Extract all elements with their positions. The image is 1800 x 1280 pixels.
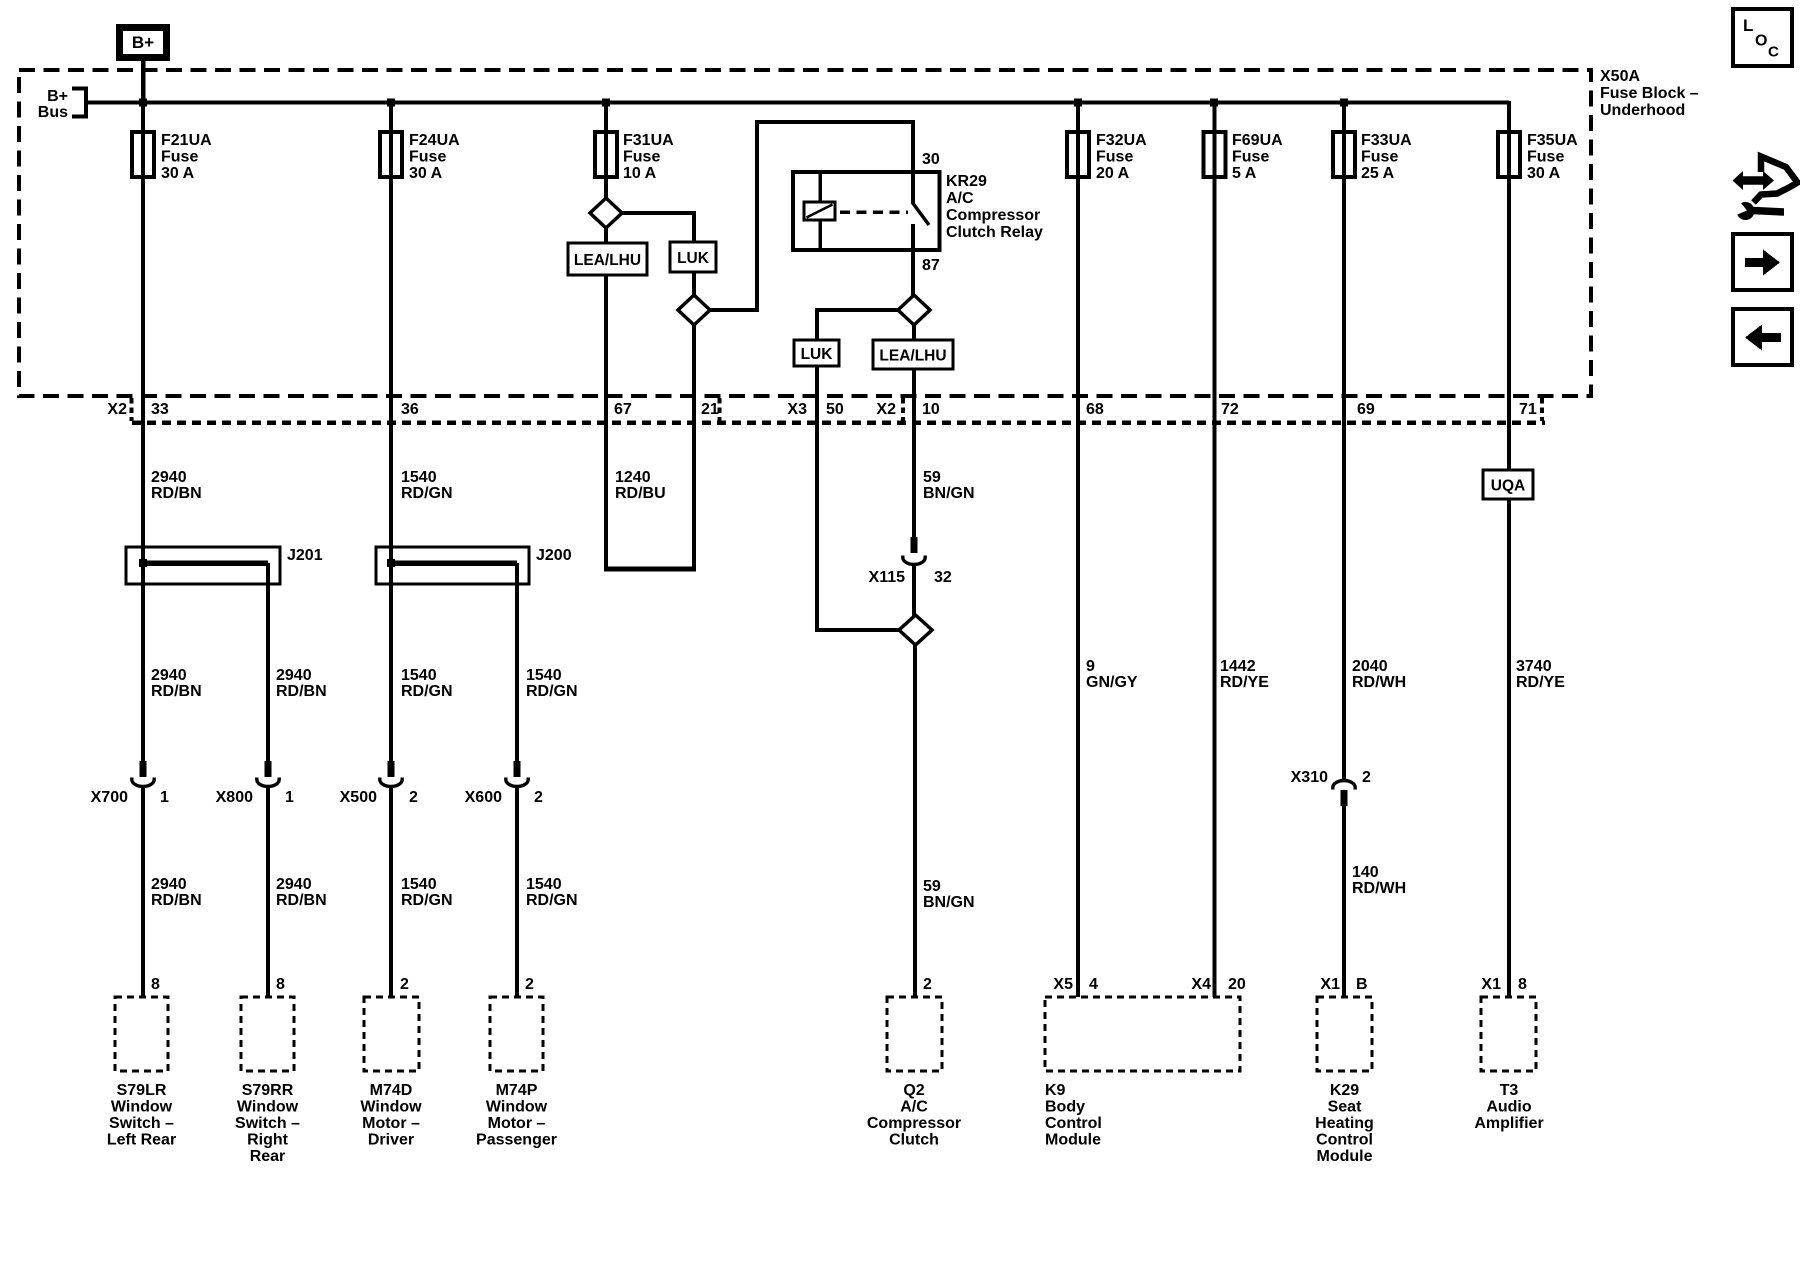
svg-text:Control: Control bbox=[1045, 1115, 1102, 1132]
splice diamond above pin 21 bbox=[678, 295, 710, 325]
svg-text:2: 2 bbox=[400, 976, 409, 993]
option box LEA/LHU (upper) bbox=[568, 243, 647, 275]
svg-text:30 A: 30 A bbox=[409, 165, 443, 182]
svg-text:GN/GY: GN/GY bbox=[1086, 674, 1138, 691]
svg-text:X115: X115 bbox=[869, 569, 906, 586]
wire diamond right arm up and over to relay pin 30 bbox=[708, 122, 913, 310]
svg-text:M74D: M74D bbox=[370, 1082, 413, 1099]
wire X800 to S79RR bbox=[266, 788, 270, 997]
svg-text:J201: J201 bbox=[287, 547, 323, 564]
svg-text:9: 9 bbox=[1086, 658, 1095, 675]
wire relay pin 87 to diamond bbox=[911, 250, 915, 297]
svg-text:Left Rear: Left Rear bbox=[107, 1132, 176, 1149]
svg-text:30 A: 30 A bbox=[161, 165, 195, 182]
wire below diamond to U-bottom bbox=[692, 323, 696, 569]
connector strip separator mark right of X2 bbox=[901, 398, 905, 421]
connector X310 socket arc bbox=[1333, 781, 1355, 790]
connector X600 socket arc bbox=[506, 778, 528, 787]
wire F24UA column bbox=[389, 104, 393, 762]
connector strip separator mark right of pin 71 bbox=[1540, 398, 1544, 421]
svg-text:140: 140 bbox=[1352, 864, 1379, 881]
svg-text:Module: Module bbox=[1045, 1132, 1101, 1149]
svg-text:33: 33 bbox=[151, 401, 169, 418]
option box LUK (upper) bbox=[670, 242, 716, 272]
junction block J200 box bbox=[376, 547, 529, 584]
component K29 dashed box bbox=[1317, 997, 1372, 1071]
svg-text:Fuse: Fuse bbox=[623, 149, 660, 166]
connector X115 male pin bbox=[910, 537, 917, 553]
svg-text:8: 8 bbox=[151, 976, 160, 993]
svg-text:Q2: Q2 bbox=[903, 1082, 924, 1099]
connector X310 male pin bbox=[1340, 790, 1347, 806]
svg-text:A/C: A/C bbox=[900, 1099, 928, 1116]
splice diamond below F31UA bbox=[590, 198, 622, 228]
svg-text:Compressor: Compressor bbox=[867, 1115, 961, 1132]
option box LUK (lower) bbox=[794, 340, 839, 366]
svg-text:67: 67 bbox=[614, 401, 632, 418]
component K9 dashed box bbox=[1045, 997, 1240, 1071]
wire U-bottom joining circuits 67 and 21 bbox=[604, 567, 696, 572]
junction block J201 box bbox=[126, 547, 280, 584]
svg-text:Right: Right bbox=[247, 1132, 289, 1149]
svg-text:B+: B+ bbox=[47, 88, 68, 105]
svg-text:F24UA: F24UA bbox=[409, 132, 460, 149]
svg-text:Rear: Rear bbox=[250, 1148, 286, 1165]
svg-text:2: 2 bbox=[534, 789, 543, 806]
option box UQA bbox=[1483, 470, 1533, 499]
svg-text:2: 2 bbox=[923, 976, 932, 993]
svg-text:1: 1 bbox=[285, 789, 294, 806]
svg-text:Module: Module bbox=[1317, 1148, 1373, 1165]
svg-text:Driver: Driver bbox=[368, 1132, 414, 1149]
svg-text:X700: X700 bbox=[91, 789, 128, 806]
svg-text:LEA/LHU: LEA/LHU bbox=[879, 348, 946, 365]
svg-text:Heating: Heating bbox=[1315, 1115, 1374, 1132]
svg-text:Clutch Relay: Clutch Relay bbox=[946, 224, 1043, 241]
svg-text:LUK: LUK bbox=[801, 346, 834, 363]
svg-text:F35UA: F35UA bbox=[1527, 132, 1578, 149]
svg-text:A/C: A/C bbox=[946, 190, 974, 207]
wire F35UA column bbox=[1507, 101, 1511, 997]
wire X700 to S79LR bbox=[141, 788, 145, 997]
svg-text:X310: X310 bbox=[1291, 769, 1328, 786]
svg-text:RD/BN: RD/BN bbox=[151, 683, 202, 700]
svg-text:21: 21 bbox=[701, 401, 719, 418]
option box LEA/LHU (lower) bbox=[873, 340, 953, 369]
svg-text:X1: X1 bbox=[1320, 976, 1340, 993]
svg-text:2940: 2940 bbox=[151, 667, 187, 684]
backward arrow reference box bbox=[1733, 309, 1792, 365]
svg-text:Fuse: Fuse bbox=[1232, 149, 1269, 166]
connector strip separator mark right of pin 21 bbox=[718, 398, 722, 421]
svg-text:30: 30 bbox=[922, 151, 940, 168]
svg-text:Control: Control bbox=[1316, 1132, 1373, 1149]
svg-text:RD/BN: RD/BN bbox=[276, 892, 327, 909]
splice diamond below pin 87 bbox=[898, 295, 930, 325]
harness service icon double arrow bbox=[1733, 171, 1775, 190]
svg-text:69: 69 bbox=[1357, 401, 1375, 418]
svg-text:1240: 1240 bbox=[615, 469, 651, 486]
svg-text:2040: 2040 bbox=[1352, 658, 1388, 675]
wire X115 to diamond bbox=[912, 565, 916, 618]
svg-text:2940: 2940 bbox=[276, 667, 312, 684]
fuse F35UA bbox=[1498, 132, 1520, 177]
node: bus junction dot at F24UA bbox=[387, 99, 395, 107]
LOC reference box bbox=[1733, 9, 1792, 66]
svg-text:Amplifier: Amplifier bbox=[1474, 1115, 1543, 1132]
wire diamond to LEA/LHU box bbox=[604, 226, 608, 246]
svg-text:3740: 3740 bbox=[1516, 658, 1552, 675]
svg-text:RD/WH: RD/WH bbox=[1352, 880, 1406, 897]
svg-text:Fuse: Fuse bbox=[1361, 149, 1398, 166]
node: bus junction dot at F32UA bbox=[1074, 99, 1082, 107]
svg-text:X500: X500 bbox=[340, 789, 377, 806]
svg-text:71: 71 bbox=[1519, 401, 1537, 418]
wire X600 to M74P bbox=[515, 788, 519, 997]
svg-text:T3: T3 bbox=[1500, 1082, 1519, 1099]
wire F33UA column to X310 bbox=[1342, 104, 1346, 780]
wire B+ terminal drop bbox=[141, 58, 146, 103]
svg-text:X2: X2 bbox=[876, 401, 896, 418]
svg-text:C: C bbox=[1768, 44, 1779, 61]
B+ bus wire (horizontal) bbox=[88, 101, 1509, 105]
svg-text:Fuse: Fuse bbox=[1527, 149, 1564, 166]
connector strip separator mark left of pin 33 bbox=[130, 398, 134, 421]
svg-text:20 A: 20 A bbox=[1096, 165, 1130, 182]
svg-text:RD/BN: RD/BN bbox=[276, 683, 327, 700]
component S79LR dashed box bbox=[115, 997, 168, 1071]
wire F31UA column (bus to diamond) bbox=[604, 104, 608, 200]
svg-text:F31UA: F31UA bbox=[623, 132, 674, 149]
svg-text:Switch –: Switch – bbox=[109, 1115, 174, 1132]
svg-text:RD/GN: RD/GN bbox=[526, 892, 578, 909]
connector X800 male pin bbox=[264, 761, 271, 777]
svg-text:Window: Window bbox=[486, 1099, 548, 1116]
svg-text:B: B bbox=[1356, 976, 1368, 993]
svg-text:30 A: 30 A bbox=[1527, 165, 1561, 182]
relay switch blade bbox=[912, 202, 929, 225]
splice diamond above Q2 bbox=[899, 615, 932, 645]
svg-text:2940: 2940 bbox=[151, 469, 187, 486]
svg-text:2: 2 bbox=[409, 789, 418, 806]
svg-text:Window: Window bbox=[360, 1099, 422, 1116]
B+ terminal box bbox=[116, 24, 170, 61]
svg-text:Fuse: Fuse bbox=[409, 149, 446, 166]
component S79RR dashed box bbox=[241, 997, 294, 1071]
svg-text:1: 1 bbox=[160, 789, 169, 806]
svg-text:RD/BU: RD/BU bbox=[615, 485, 666, 502]
fuse F32UA bbox=[1067, 132, 1089, 177]
connector strip lower dotted line bbox=[132, 420, 1545, 425]
svg-text:Passenger: Passenger bbox=[476, 1132, 557, 1149]
connector X115 socket arc bbox=[903, 556, 925, 565]
svg-text:KR29: KR29 bbox=[946, 173, 987, 190]
svg-text:36: 36 bbox=[401, 401, 419, 418]
svg-text:X800: X800 bbox=[216, 789, 253, 806]
wire J200 to X600 bbox=[515, 563, 519, 762]
svg-text:Fuse Block –: Fuse Block – bbox=[1600, 85, 1699, 102]
svg-text:S79LR: S79LR bbox=[117, 1082, 167, 1099]
svg-text:Motor –: Motor – bbox=[362, 1115, 420, 1132]
relay coil feed bottom bbox=[818, 220, 822, 248]
svg-text:Motor –: Motor – bbox=[488, 1115, 546, 1132]
svg-text:1540: 1540 bbox=[401, 469, 437, 486]
component M74D dashed box bbox=[364, 997, 419, 1071]
relay switch pivot wire pin 30 bbox=[911, 174, 915, 203]
fuse F33UA bbox=[1333, 132, 1355, 177]
component Q2 dashed box bbox=[887, 997, 942, 1071]
svg-text:K9: K9 bbox=[1045, 1082, 1066, 1099]
wire below LEA/LHU through pin 10 to connector X115 bbox=[912, 369, 916, 540]
wire diamond right arm to LUK column bbox=[620, 213, 694, 245]
svg-text:68: 68 bbox=[1086, 401, 1104, 418]
svg-text:X600: X600 bbox=[465, 789, 502, 806]
svg-text:Clutch: Clutch bbox=[889, 1132, 939, 1149]
svg-text:S79RR: S79RR bbox=[242, 1082, 294, 1099]
svg-text:F69UA: F69UA bbox=[1232, 132, 1283, 149]
svg-text:RD/GN: RD/GN bbox=[401, 892, 453, 909]
svg-text:Compressor: Compressor bbox=[946, 207, 1040, 224]
svg-text:2: 2 bbox=[525, 976, 534, 993]
relay coil diagonal bbox=[807, 205, 833, 218]
svg-text:72: 72 bbox=[1221, 401, 1239, 418]
svg-text:RD/GN: RD/GN bbox=[526, 683, 578, 700]
wire diamond bottom to LEA/LHU box bbox=[912, 323, 916, 343]
connector X700 male pin bbox=[139, 761, 146, 777]
svg-text:K29: K29 bbox=[1330, 1082, 1359, 1099]
wire X500 to M74D bbox=[389, 788, 393, 997]
wire F21UA column (bus to J201 through fuse) bbox=[141, 104, 145, 762]
svg-text:4: 4 bbox=[1089, 976, 1098, 993]
svg-text:Window: Window bbox=[111, 1099, 173, 1116]
relay fixed contact pin 87 bbox=[911, 224, 915, 248]
svg-text:X4: X4 bbox=[1191, 976, 1211, 993]
relay dashed actuation link bbox=[840, 210, 908, 214]
junction block J200 internal bus bbox=[391, 560, 517, 566]
component M74P dashed box bbox=[490, 997, 543, 1071]
junction block J201 internal bus bbox=[143, 560, 268, 566]
svg-text:10: 10 bbox=[922, 401, 940, 418]
node: J201 junction dot bbox=[139, 559, 147, 567]
svg-text:25 A: 25 A bbox=[1361, 165, 1395, 182]
svg-text:Fuse: Fuse bbox=[161, 149, 198, 166]
svg-text:RD/GN: RD/GN bbox=[401, 485, 453, 502]
svg-text:RD/WH: RD/WH bbox=[1352, 674, 1406, 691]
wire below LUK through pin 50 down and right to diamond bbox=[817, 366, 901, 630]
relay KR29 outer box bbox=[793, 172, 940, 250]
svg-text:1540: 1540 bbox=[526, 667, 562, 684]
svg-text:1540: 1540 bbox=[401, 876, 437, 893]
wire below LEA/LHU box to U-bottom bbox=[604, 275, 608, 569]
svg-text:LUK: LUK bbox=[677, 250, 710, 267]
svg-text:5 A: 5 A bbox=[1232, 165, 1257, 182]
svg-text:UQA: UQA bbox=[1491, 478, 1525, 495]
wire F32UA column bbox=[1076, 104, 1080, 997]
svg-text:RD/GN: RD/GN bbox=[401, 683, 453, 700]
svg-text:BN/GN: BN/GN bbox=[923, 485, 975, 502]
svg-text:X1: X1 bbox=[1481, 976, 1501, 993]
svg-text:59: 59 bbox=[923, 878, 941, 895]
svg-text:Seat: Seat bbox=[1328, 1099, 1362, 1116]
fuse F24UA bbox=[380, 132, 402, 177]
svg-text:2940: 2940 bbox=[151, 876, 187, 893]
component T3 dashed box bbox=[1481, 997, 1536, 1071]
connector X800 socket arc bbox=[257, 778, 279, 787]
svg-text:L: L bbox=[1743, 16, 1753, 35]
svg-text:32: 32 bbox=[934, 569, 952, 586]
svg-text:1540: 1540 bbox=[401, 667, 437, 684]
svg-text:J200: J200 bbox=[536, 547, 572, 564]
connector X700 socket arc bbox=[132, 778, 154, 787]
svg-text:Fuse: Fuse bbox=[1096, 149, 1133, 166]
svg-text:8: 8 bbox=[276, 976, 285, 993]
node: bus junction dot at F69UA bbox=[1210, 99, 1218, 107]
svg-text:X50A: X50A bbox=[1600, 68, 1640, 85]
svg-text:87: 87 bbox=[922, 257, 940, 274]
svg-text:10 A: 10 A bbox=[623, 165, 657, 182]
connector X600 male pin bbox=[513, 761, 520, 777]
wire X310 to K29 bbox=[1342, 804, 1346, 997]
fuse F21UA bbox=[132, 132, 154, 177]
svg-text:RD/BN: RD/BN bbox=[151, 485, 202, 502]
svg-text:Audio: Audio bbox=[1486, 1099, 1532, 1116]
svg-text:20: 20 bbox=[1228, 976, 1246, 993]
svg-text:B+: B+ bbox=[132, 33, 154, 52]
connector X500 socket arc bbox=[380, 778, 402, 787]
connector X500 male pin bbox=[387, 761, 394, 777]
wire J201 to X800 bbox=[266, 563, 270, 762]
svg-text:1442: 1442 bbox=[1220, 658, 1256, 675]
svg-text:LEA/LHU: LEA/LHU bbox=[574, 252, 641, 269]
svg-text:2: 2 bbox=[1362, 769, 1371, 786]
svg-text:8: 8 bbox=[1518, 976, 1527, 993]
relay coil box bbox=[804, 202, 835, 220]
harness service icon outline arrow bbox=[1754, 157, 1798, 203]
svg-text:59: 59 bbox=[923, 469, 941, 486]
svg-text:RD/YE: RD/YE bbox=[1220, 674, 1269, 691]
svg-text:X2: X2 bbox=[107, 401, 127, 418]
svg-text:X5: X5 bbox=[1053, 976, 1073, 993]
svg-text:X3: X3 bbox=[787, 401, 807, 418]
node: bus junction dot at F33UA bbox=[1340, 99, 1348, 107]
B+ Bus bracket bbox=[72, 87, 86, 119]
relay coil feed top bbox=[818, 174, 822, 202]
wire diamond to Q2 bbox=[913, 643, 917, 997]
svg-text:Underhood: Underhood bbox=[1600, 102, 1685, 119]
svg-text:Window: Window bbox=[237, 1099, 299, 1116]
wire below LUK box to diamond bbox=[692, 272, 696, 297]
svg-text:2940: 2940 bbox=[276, 876, 312, 893]
svg-text:1540: 1540 bbox=[526, 876, 562, 893]
svg-text:RD/BN: RD/BN bbox=[151, 892, 202, 909]
fuse F69UA bbox=[1204, 132, 1226, 177]
wire diamond left arm to LUK column bbox=[817, 310, 900, 343]
node: J200 junction dot bbox=[387, 559, 395, 567]
forward arrow reference box bbox=[1733, 234, 1792, 290]
svg-text:Bus: Bus bbox=[38, 104, 68, 121]
svg-text:M74P: M74P bbox=[496, 1082, 538, 1099]
svg-text:RD/YE: RD/YE bbox=[1516, 674, 1565, 691]
harness service icon wrench bbox=[1737, 202, 1755, 220]
node: bus junction dot at F31UA bbox=[602, 99, 610, 107]
svg-text:F33UA: F33UA bbox=[1361, 132, 1412, 149]
node: bus junction dot at F21UA bbox=[139, 99, 147, 107]
fuse F31UA bbox=[595, 132, 617, 177]
svg-text:F21UA: F21UA bbox=[161, 132, 212, 149]
svg-text:F32UA: F32UA bbox=[1096, 132, 1147, 149]
svg-text:Body: Body bbox=[1045, 1099, 1085, 1116]
svg-text:BN/GN: BN/GN bbox=[923, 894, 975, 911]
svg-text:50: 50 bbox=[826, 401, 844, 418]
wire F69UA column bbox=[1213, 104, 1217, 997]
fuse block X50A dashed box bbox=[19, 70, 1591, 396]
svg-text:Switch –: Switch – bbox=[235, 1115, 300, 1132]
svg-text:O: O bbox=[1755, 33, 1767, 50]
